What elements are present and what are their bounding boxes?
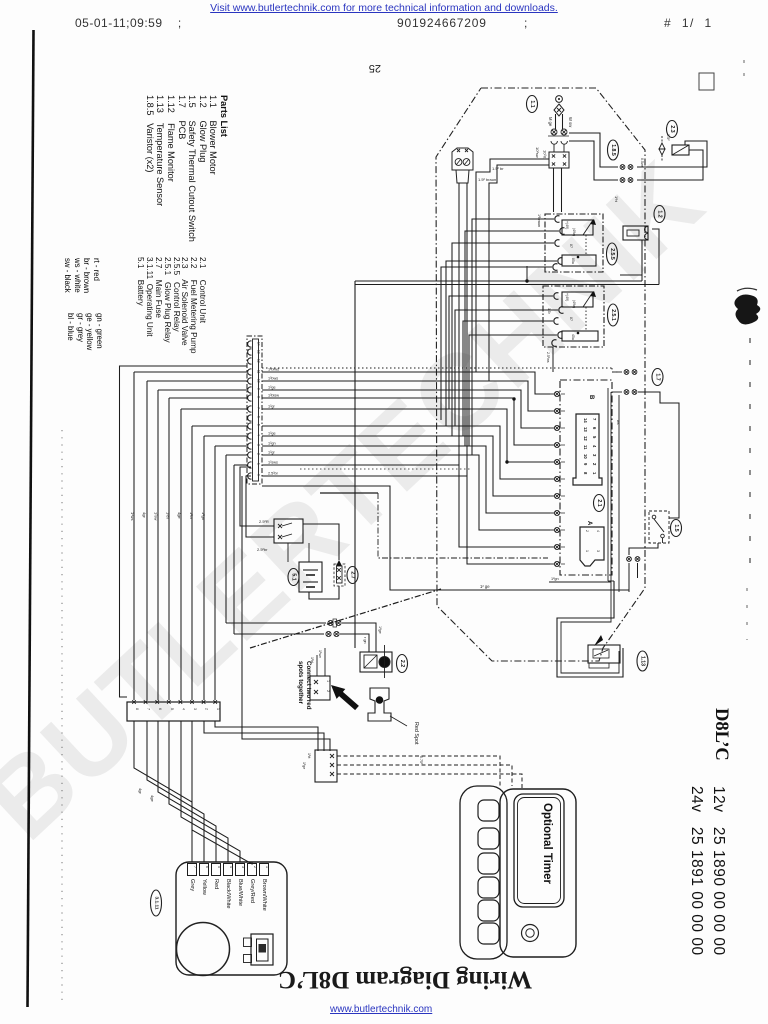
oval label 1.2 bbox=[654, 206, 665, 223]
svg-text:4ge: 4ge bbox=[150, 795, 155, 802]
wire bundle left of strip - feeders bbox=[134, 371, 247, 373]
wires strip pins to timer connector bbox=[215, 721, 318, 751]
svg-text:Grey: Grey bbox=[189, 879, 195, 891]
svg-text:1²bws: 1²bws bbox=[268, 377, 278, 381]
red spot leader bbox=[390, 716, 407, 726]
bulkhead pins to pump upper bbox=[226, 622, 326, 624]
svg-text:4: 4 bbox=[596, 530, 600, 532]
svg-text:6: 6 bbox=[592, 427, 597, 430]
svg-text:1²sws: 1²sws bbox=[268, 461, 278, 465]
svg-text:2: 2 bbox=[257, 453, 261, 455]
safety thermal cutout switch 1.5 bbox=[649, 511, 669, 543]
main fuse 2.7 bbox=[336, 560, 342, 566]
svg-text:A: A bbox=[586, 521, 592, 526]
svg-text:2.2: 2.2 bbox=[399, 660, 405, 667]
svg-text:4ge: 4ge bbox=[177, 512, 182, 519]
svg-text:3: 3 bbox=[193, 708, 197, 710]
svg-text:87: 87 bbox=[569, 244, 573, 248]
wire 1.5qmm br bbox=[476, 159, 549, 372]
oval label 3.1.11 bbox=[151, 890, 162, 916]
valve symbol bbox=[659, 143, 665, 155]
svg-text:3: 3 bbox=[592, 454, 597, 457]
svg-text:0.5ws: 0.5ws bbox=[640, 158, 644, 168]
svg-text:1²ws: 1²ws bbox=[130, 512, 135, 520]
control unit 2.1 dashed enclosure bbox=[560, 380, 612, 575]
wire 1.5qmm braun bbox=[489, 165, 549, 381]
svg-text:5: 5 bbox=[170, 708, 174, 710]
svg-text:1²bl: 1²bl bbox=[165, 512, 170, 519]
svg-text:4gr: 4gr bbox=[138, 788, 143, 794]
svg-text:+(49): +(49) bbox=[565, 293, 569, 301]
svg-text:7: 7 bbox=[147, 708, 151, 710]
svg-text:8: 8 bbox=[257, 396, 261, 398]
svg-text:2.1: 2.1 bbox=[596, 499, 602, 506]
wire pcb pin to thermal switch bbox=[638, 392, 679, 518]
temperature sensor 1.13 bbox=[588, 645, 620, 663]
svg-text:11: 11 bbox=[257, 370, 261, 374]
glow plug wires down bbox=[458, 183, 460, 465]
scan artifact small box top right bbox=[699, 73, 714, 90]
control unit pins bbox=[554, 391, 559, 396]
svg-text:2.5²br: 2.5²br bbox=[268, 472, 279, 476]
svg-text:2.5²R: 2.5²R bbox=[259, 519, 269, 524]
svg-text:0: 0 bbox=[257, 474, 261, 476]
operating unit dial bbox=[177, 923, 230, 976]
svg-text:2.5²: 2.5² bbox=[666, 134, 670, 141]
wire bundle left verticals bbox=[133, 372, 135, 700]
svg-text:1²blws: 1²blws bbox=[268, 368, 279, 372]
svg-text:2.5.5: 2.5.5 bbox=[609, 248, 615, 260]
fax header line bbox=[75, 16, 182, 30]
svg-text:3: 3 bbox=[596, 550, 600, 552]
oval label 2.5.1 bbox=[608, 304, 619, 326]
2pin connector battery bbox=[274, 519, 303, 543]
wire relay 2.5.1 drops bbox=[449, 296, 553, 409]
svg-text:1² ge: 1² ge bbox=[480, 584, 490, 589]
wire long 1qmm rt bus bbox=[355, 280, 642, 282]
svg-text:(49a): (49a) bbox=[572, 300, 576, 308]
svg-text:1.7: 1.7 bbox=[655, 373, 661, 380]
pcb pins right of control unit bbox=[624, 370, 629, 375]
svg-text:6: 6 bbox=[205, 866, 209, 868]
header link bbox=[0, 2, 768, 14]
oval label 1.13 bbox=[637, 651, 648, 671]
svg-text:1: 1 bbox=[585, 550, 589, 552]
svg-text:5.1: 5.1 bbox=[291, 573, 297, 580]
svg-text:1.13: 1.13 bbox=[640, 656, 646, 666]
svg-text:4: 4 bbox=[592, 445, 597, 448]
svg-text:25: 25 bbox=[369, 62, 381, 74]
svg-text:3: 3 bbox=[241, 866, 245, 868]
svg-text:2: 2 bbox=[585, 530, 589, 532]
svg-text:45a: 45a bbox=[571, 334, 575, 340]
bottom rotated title bbox=[272, 965, 538, 993]
svg-text:13: 13 bbox=[583, 427, 588, 432]
svg-text:1²ge: 1²ge bbox=[268, 432, 276, 436]
svg-text:2.3: 2.3 bbox=[669, 125, 675, 132]
oval label 2.1 bbox=[594, 495, 605, 512]
red spot connector X2 bbox=[310, 676, 330, 700]
boundary arrow marker bbox=[594, 635, 603, 646]
timer knob bbox=[522, 925, 539, 942]
fuel metering pump 2.2 bbox=[360, 652, 392, 672]
harness fan-out wires bbox=[134, 721, 192, 862]
red spot symbol bbox=[368, 688, 391, 721]
control unit connector A bbox=[580, 527, 604, 566]
left margin dotted artifact bbox=[61, 430, 63, 1000]
dotted wire mid bbox=[300, 468, 470, 470]
main harness connector S1 bbox=[127, 702, 220, 721]
wire feeders strip to control unit bbox=[262, 372, 550, 394]
oval label 2.7 bbox=[347, 567, 358, 584]
svg-text:85a: 85a bbox=[571, 258, 575, 264]
svg-text:7: 7 bbox=[592, 418, 597, 421]
svg-text:1²ge: 1²ge bbox=[268, 386, 276, 390]
svg-text:2.5.1: 2.5.1 bbox=[610, 309, 616, 321]
wire colour legend column 2 bbox=[66, 313, 104, 350]
wire motor to relay bbox=[553, 168, 555, 212]
svg-text:+(49): +(49) bbox=[565, 221, 569, 229]
svg-text:7: 7 bbox=[257, 407, 261, 409]
svg-text:3.1.11: 3.1.11 bbox=[154, 896, 160, 909]
timer connector X3 bbox=[315, 750, 337, 782]
motor connector block bbox=[549, 152, 569, 168]
wire switch to pins bbox=[629, 543, 658, 555]
oval label 2.5.5 bbox=[607, 243, 618, 265]
air solenoid valve 2.3 bbox=[667, 121, 678, 138]
wire loop inner bbox=[561, 581, 619, 673]
optional timer body bbox=[500, 789, 576, 957]
svg-text:1.1: 1.1 bbox=[529, 100, 535, 107]
wire 1qmm ge long run bbox=[262, 486, 629, 590]
svg-text:1.2: 1.2 bbox=[657, 210, 663, 217]
svg-text:4gr: 4gr bbox=[142, 512, 147, 518]
glow plug element 1.2 bbox=[623, 226, 648, 240]
svg-text:5: 5 bbox=[257, 424, 261, 426]
svg-text:1²rt: 1²rt bbox=[614, 196, 619, 203]
svg-text:11: 11 bbox=[583, 445, 588, 450]
oval label 1.7 bbox=[652, 369, 663, 386]
dash-dot fuel line bbox=[250, 589, 441, 648]
svg-text:4: 4 bbox=[181, 708, 185, 710]
wire second bus line bbox=[355, 284, 659, 286]
svg-text:Yellow: Yellow bbox=[201, 879, 207, 896]
wires strip bottom to battery connector bbox=[240, 467, 274, 526]
dotted wire at strip top bbox=[262, 367, 612, 369]
motor connector pins bbox=[551, 129, 557, 135]
svg-text:1²gr: 1²gr bbox=[268, 451, 275, 455]
svg-text:Optional Timer: Optional Timer bbox=[541, 803, 553, 884]
svg-text:M ge: M ge bbox=[548, 117, 553, 127]
dashed wires to optional timer bbox=[337, 756, 500, 786]
blower motor M 1.1 bbox=[556, 96, 563, 103]
svg-text:B: B bbox=[588, 395, 594, 400]
svg-text:1²bl: 1²bl bbox=[310, 657, 314, 663]
wire bus riser to pump bbox=[354, 281, 356, 648]
heater unit dashed boundary bbox=[436, 88, 645, 661]
wire to pump feed lower bbox=[233, 465, 235, 634]
svg-text:14: 14 bbox=[257, 342, 261, 346]
svg-text:10: 10 bbox=[583, 454, 588, 459]
svg-text:1.5: 1.5 bbox=[673, 524, 679, 531]
svg-text:spots together: spots together bbox=[297, 661, 304, 705]
bulkhead pins to pump lower bbox=[234, 633, 324, 635]
svg-text:1²gr: 1²gr bbox=[268, 405, 275, 409]
wire relay 2.5.1 bottom stub bbox=[552, 347, 554, 372]
arrow pointer bbox=[331, 685, 359, 710]
svg-text:1²br: 1²br bbox=[189, 512, 194, 520]
svg-text:6: 6 bbox=[158, 708, 162, 710]
wire control unit to temperature sensor loop outer bbox=[557, 581, 623, 677]
svg-text:1²gn: 1²gn bbox=[268, 442, 276, 446]
svg-text:4: 4 bbox=[229, 866, 233, 868]
svg-text:2.5²br: 2.5²br bbox=[257, 547, 268, 552]
svg-text:1.5² br: 1.5² br bbox=[492, 166, 504, 171]
wire 1qmm gn bbox=[549, 581, 611, 583]
oval label 1.1 bbox=[527, 96, 538, 113]
control unit connector B bbox=[573, 414, 602, 485]
svg-text:13: 13 bbox=[257, 350, 261, 354]
svg-text:10: 10 bbox=[257, 379, 261, 383]
part number block right bbox=[710, 708, 731, 761]
svg-text:Brown/White: Brown/White bbox=[261, 879, 267, 911]
svg-text:0.75²: 0.75² bbox=[419, 756, 423, 765]
operating unit terminals bbox=[188, 864, 197, 876]
svg-text:12: 12 bbox=[257, 359, 261, 363]
operating unit 3.1.11 body bbox=[176, 862, 287, 975]
svg-text:1: 1 bbox=[592, 472, 597, 475]
svg-text:W sw: W sw bbox=[568, 117, 573, 128]
oval label 2.2 bbox=[397, 655, 408, 673]
svg-text:6: 6 bbox=[257, 416, 261, 418]
svg-text:10²sw: 10²sw bbox=[535, 147, 540, 158]
scan artifact blob right edge bbox=[734, 295, 760, 325]
svg-text:1²sw: 1²sw bbox=[154, 512, 159, 521]
wire battery bottom loop bbox=[309, 586, 339, 599]
svg-text:ws: ws bbox=[616, 420, 620, 425]
svg-text:5: 5 bbox=[592, 436, 597, 439]
control relay 2.5.5 bbox=[545, 214, 603, 272]
svg-text:2: 2 bbox=[253, 866, 257, 868]
svg-text:(49a): (49a) bbox=[572, 228, 576, 236]
wire colour legend column 1 bbox=[63, 258, 101, 293]
parts list column 1 bbox=[144, 95, 229, 242]
battery 5.1 bbox=[299, 562, 322, 592]
svg-text:Black/White: Black/White bbox=[225, 879, 231, 909]
oval label 1.5 bbox=[671, 520, 682, 537]
scan dash-dot right margin bbox=[749, 338, 751, 565]
left page-edge scan line bbox=[28, 30, 34, 1007]
svg-text:3: 3 bbox=[257, 444, 261, 446]
timer buttons bbox=[478, 800, 499, 821]
wire to pump feed upper bbox=[225, 455, 227, 623]
svg-text:1: 1 bbox=[216, 708, 220, 710]
svg-text:Blue/White: Blue/White bbox=[237, 879, 243, 906]
svg-text:87: 87 bbox=[569, 317, 573, 321]
svg-text:1²sw: 1²sw bbox=[318, 650, 322, 658]
oval label 5.1 bbox=[288, 569, 299, 586]
svg-text:1²blsw: 1²blsw bbox=[268, 394, 279, 398]
oval label 1.8.5 bbox=[608, 140, 619, 160]
svg-text:Red: Red bbox=[213, 879, 219, 889]
dash-dot spare wire bbox=[378, 493, 548, 558]
svg-text:10²rt: 10²rt bbox=[543, 150, 548, 159]
svg-text:2: 2 bbox=[592, 463, 597, 466]
operating unit rocker switch bbox=[251, 934, 273, 965]
svg-text:5: 5 bbox=[217, 866, 221, 868]
control unit internal risers bbox=[607, 388, 609, 581]
svg-text:1.5²: 1.5² bbox=[547, 308, 551, 315]
svg-text:2.5²ws: 2.5²ws bbox=[546, 352, 550, 363]
svg-text:9: 9 bbox=[257, 388, 261, 390]
svg-text:14: 14 bbox=[583, 418, 588, 423]
svg-text:1²braun: 1²braun bbox=[537, 214, 541, 227]
svg-text:1²gn: 1²gn bbox=[551, 577, 559, 581]
wire leftmost vertical bbox=[120, 366, 248, 697]
svg-text:4: 4 bbox=[257, 434, 261, 436]
wire relay 2.5.5 drops bbox=[472, 219, 554, 455]
wire connector to fuse bbox=[303, 524, 339, 560]
svg-text:12: 12 bbox=[583, 436, 588, 441]
timer display bbox=[514, 794, 564, 907]
svg-text:1: 1 bbox=[326, 680, 330, 682]
svg-text:Red Spot: Red Spot bbox=[413, 722, 419, 745]
svg-text:1.8.5: 1.8.5 bbox=[610, 144, 616, 156]
svg-text:8: 8 bbox=[135, 708, 139, 710]
svg-text:2.7: 2.7 bbox=[350, 571, 356, 578]
parts list column 2 bbox=[136, 257, 206, 353]
svg-text:1: 1 bbox=[265, 866, 269, 868]
wire solenoid loop bbox=[637, 150, 703, 180]
svg-text:1²ge: 1²ge bbox=[378, 626, 382, 634]
wire connector to battery bbox=[287, 543, 289, 562]
svg-text:2: 2 bbox=[326, 690, 330, 692]
bulkhead connector pins upper bbox=[569, 133, 618, 167]
svg-text:1²rt: 1²rt bbox=[307, 753, 311, 758]
svg-text:9: 9 bbox=[583, 463, 588, 466]
svg-text:Connect two red: Connect two red bbox=[305, 661, 312, 710]
svg-text:1.5² braun: 1.5² braun bbox=[478, 177, 496, 182]
svg-text:7: 7 bbox=[193, 866, 197, 868]
glow plug 1.2 bbox=[452, 148, 473, 170]
svg-text:2: 2 bbox=[205, 708, 209, 710]
svg-text:1²ge: 1²ge bbox=[302, 762, 306, 769]
svg-text:r gn: r gn bbox=[363, 637, 367, 644]
footer link bbox=[330, 1004, 432, 1015]
svg-text:1: 1 bbox=[257, 463, 261, 465]
wire glow element loop bbox=[652, 229, 659, 285]
svg-text:8: 8 bbox=[583, 472, 588, 475]
svg-text:Grey/Red: Grey/Red bbox=[249, 879, 255, 903]
optional timer bracket bbox=[460, 786, 507, 959]
pcb connector strip X4 bbox=[247, 336, 262, 484]
wire thermal to sensor loop bbox=[608, 580, 614, 582]
svg-text:1²gn: 1²gn bbox=[201, 512, 206, 520]
glow plug relay 2.5.1 bbox=[543, 286, 604, 347]
